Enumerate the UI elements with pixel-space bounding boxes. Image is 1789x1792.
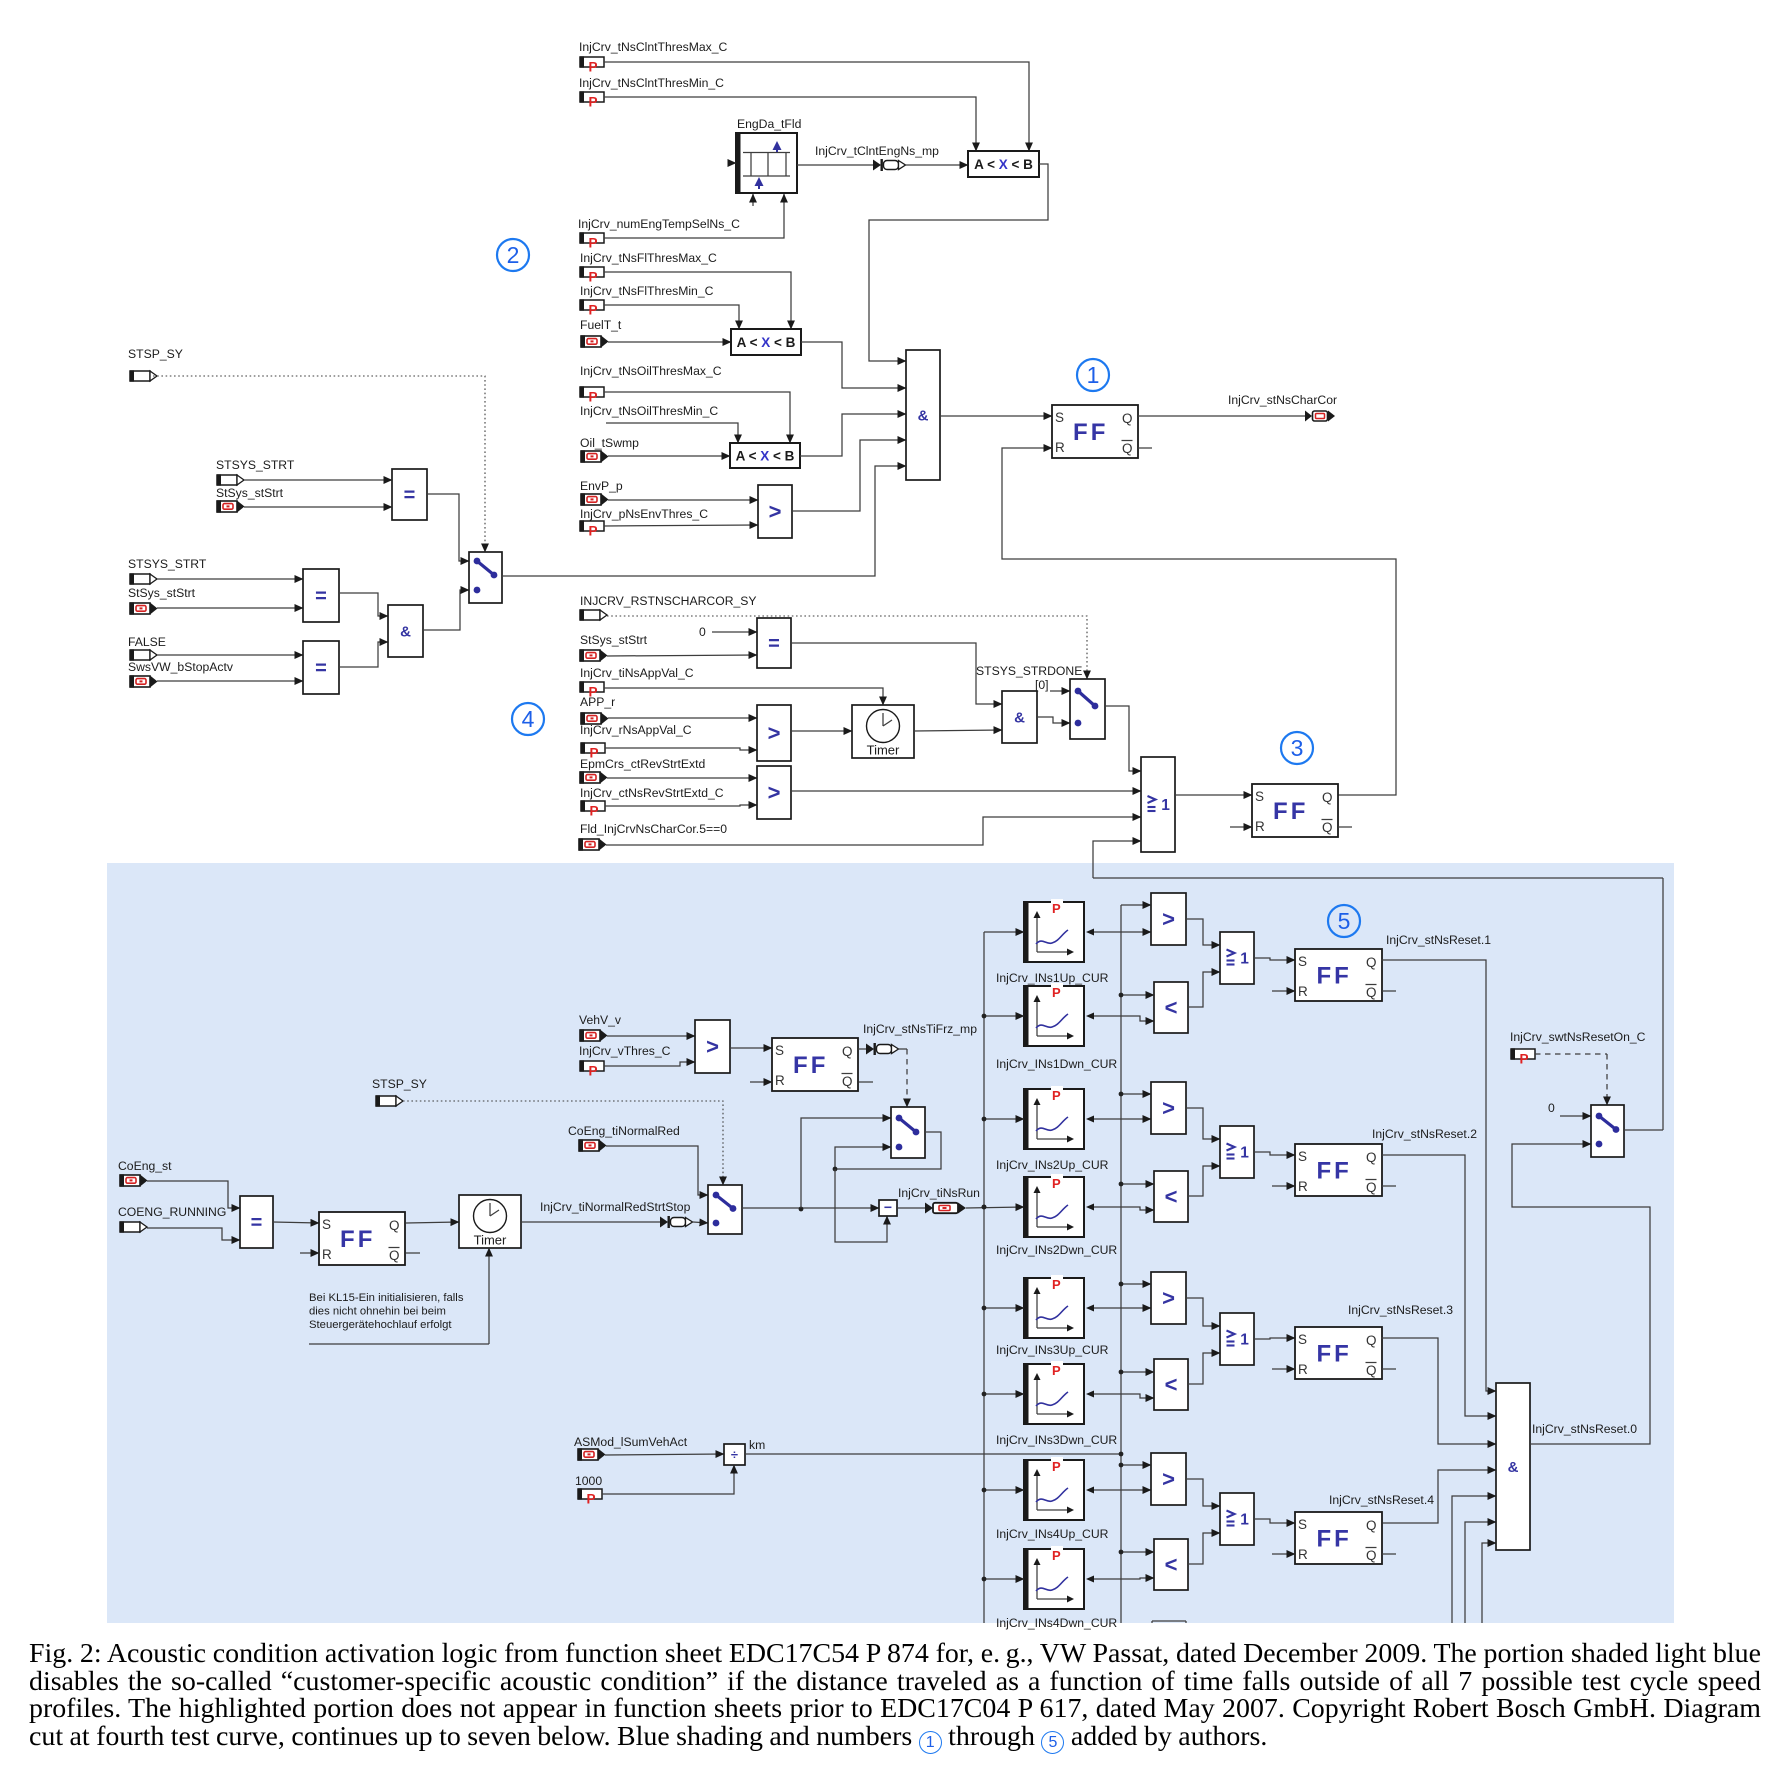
svg-text:Q: Q [389, 1248, 400, 1263]
wire tNsOilThresMin to oil comparator A input [606, 423, 738, 443]
wire OR to FF S row 3 [1254, 1338, 1295, 1339]
svg-text:&: & [400, 623, 411, 640]
switch (reset on select) [1591, 1105, 1624, 1157]
svg-text:=: = [251, 1212, 263, 1234]
svg-text:÷: ÷ [731, 1447, 738, 1462]
switch (STRDONE select) [1070, 679, 1105, 739]
svg-text:3: 3 [1291, 735, 1304, 761]
svg-text:FF: FF [1316, 1340, 1351, 1367]
output port InjCrv_stNsCharCor [1305, 411, 1312, 422]
wire equals output to AND [791, 643, 1002, 704]
wire AND output to FF1 S input [940, 415, 1052, 417]
svg-text:Oil_tSwmp: Oil_tSwmp [580, 436, 639, 450]
svg-text:StSys_stStrt: StSys_stStrt [216, 486, 284, 500]
curve block InjCrv_INs3Dwn_CUR [1024, 1364, 1084, 1424]
svg-text:STSYS_STRDONE: STSYS_STRDONE [976, 664, 1082, 678]
comparator < row 4 [1154, 1539, 1188, 1590]
FF5 R stub [300, 1252, 319, 1254]
svg-text:InjCrv_stNsReset.3: InjCrv_stNsReset.3 [1348, 1303, 1453, 1317]
flip-flop FF1 (acoustic condition latch) [1052, 405, 1138, 458]
svg-text:InjCrv_ctNsRevStrtExtd_C: InjCrv_ctNsRevStrtExtd_C [580, 786, 724, 800]
timer block (pedal) [852, 705, 914, 758]
minus block (time difference) [879, 1200, 897, 1216]
comparator A<X<B (oil) [730, 443, 800, 468]
flip-flop FF4 (speed freeze latch) [772, 1038, 858, 1091]
wire speed comparator to FF4 S [730, 1047, 772, 1049]
wire AND to switch input 2 [1037, 717, 1070, 723]
wire lower equals output to AND [339, 593, 388, 616]
svg-text:>: > [1162, 1286, 1175, 1311]
svg-text:P: P [589, 524, 598, 539]
circled number 5 [1328, 905, 1360, 937]
flip-flop FF3 (reset latch) [1252, 784, 1338, 837]
flip-flop FF InjCrv_stNsReset.4 [1295, 1512, 1382, 1564]
comparator A<X<B (fuel) [731, 329, 801, 355]
wire tNsFlThresMax to fuel comparator B input [604, 272, 791, 329]
wire OR to FF S row 2 [1254, 1152, 1295, 1155]
svg-text:Timer: Timer [867, 743, 900, 758]
svg-text:CoEng_st: CoEng_st [118, 1159, 172, 1173]
equals block (STSYS_STRT top) [392, 469, 427, 520]
dotted wire RSTNSCHARCOR to switch control [607, 616, 1087, 679]
switch (time freeze) [891, 1107, 925, 1158]
circled number 4 [512, 703, 544, 735]
wire tiNsRun to bus and CUR2Dwn input [966, 1207, 1024, 1208]
wire stNsReset.0 output loop to switch [1512, 1144, 1650, 1444]
wire start AND output to switch input 2 [423, 590, 469, 630]
svg-text:1: 1 [1161, 797, 1170, 814]
svg-text:1: 1 [1240, 951, 1249, 968]
curve block InjCrv_INs4Up_CUR [1024, 1460, 1084, 1520]
svg-text:InjCrv_tiNormalRedStrtStop: InjCrv_tiNormalRedStrtStop [540, 1200, 691, 1214]
wire InjCrv_INs3Up_CUR output to > comparator [1086, 1305, 1094, 1312]
svg-text:P: P [587, 1492, 596, 1507]
svg-text:FF: FF [1273, 798, 1308, 825]
svg-text:Q: Q [1366, 1363, 1377, 1378]
wire > output to OR row 1 [1186, 919, 1220, 945]
flip-flop FF InjCrv_stNsReset.2 [1295, 1144, 1382, 1196]
svg-text:Q: Q [1366, 1150, 1377, 1165]
svg-text:InjCrv_INs4Dwn_CUR: InjCrv_INs4Dwn_CUR [996, 1616, 1117, 1630]
wire InjCrv_INs4Dwn_CUR output to < comparator [1086, 1576, 1094, 1583]
svg-text:Timer: Timer [474, 1233, 507, 1248]
wire FF Reset.2 Q to AND collector [1382, 1155, 1496, 1416]
wire < output to OR row 1 [1188, 972, 1220, 1007]
svg-text:Q: Q [389, 1218, 400, 1233]
equals block (FALSE compare) [303, 641, 339, 694]
comparator > row 2 [1151, 1082, 1186, 1134]
svg-text:A < X < B: A < X < B [974, 157, 1033, 172]
wire StSys_stStrt upper to equals [244, 506, 392, 508]
svg-text:P: P [589, 60, 598, 75]
wire time bus to InjCrv_INs2Up_CUR input [984, 1118, 1024, 1120]
svg-text:P: P [589, 303, 598, 318]
flip-flop FF5 (engine running latch) [319, 1212, 405, 1265]
wire InjCrv_INs1Up_CUR output to > comparator [1086, 929, 1094, 936]
wire km bus to < row 3 [1121, 1371, 1154, 1373]
wire upper equals output to switch input 1 [427, 494, 469, 561]
svg-text:2: 2 [507, 242, 520, 268]
svg-text:[0]: [0] [1035, 678, 1049, 692]
svg-text:P: P [589, 270, 598, 285]
svg-text:Q: Q [1366, 1548, 1377, 1563]
wire km bus to < row 1 [1121, 994, 1154, 996]
FF row 1 R stub [1272, 990, 1295, 992]
wire InjCrv_INs4Up_CUR output to > comparator [1086, 1487, 1094, 1494]
OR gate (reset conditions) [1141, 757, 1175, 852]
wire 0 to equals [712, 631, 757, 633]
wire FF Reset.4 Q to AND collector [1383, 1470, 1496, 1523]
circled number 1 [1077, 359, 1109, 391]
svg-text:P: P [1052, 1459, 1061, 1474]
svg-text:P: P [590, 804, 599, 819]
wire time bus to InjCrv_INs1Dwn_CUR input [984, 1015, 1024, 1017]
svg-text:InjCrv_INs3Up_CUR: InjCrv_INs3Up_CUR [996, 1343, 1109, 1357]
svg-text:FF: FF [793, 1052, 828, 1079]
svg-text:Q: Q [1322, 820, 1333, 835]
curve block InjCrv_INs1Up_CUR [1024, 902, 1084, 962]
svg-text:InjCrv_INs4Up_CUR: InjCrv_INs4Up_CUR [996, 1527, 1109, 1541]
dashed wire stNsTiFrz to switch control [899, 1048, 907, 1050]
wire InjCrv_INs2Up_CUR output to > comparator [1086, 1116, 1094, 1123]
svg-text:P: P [1052, 901, 1061, 916]
dotted wire STSP_SY to switch control (blue) [403, 1101, 723, 1185]
wire CoEng_st to equals [147, 1181, 240, 1208]
wire tNsFlThresMin to fuel comparator A input [604, 305, 739, 329]
svg-text:Q: Q [1122, 441, 1133, 456]
svg-text:Steuergerätehochlauf erfolgt: Steuergerätehochlauf erfolgt [309, 1319, 452, 1331]
svg-text:P: P [1052, 985, 1061, 1000]
svg-text:InjCrv_vThres_C: InjCrv_vThres_C [579, 1044, 671, 1058]
wire pedal comparator to Timer [791, 730, 852, 732]
svg-text:R: R [1298, 1547, 1308, 1562]
svg-text:=: = [315, 658, 327, 680]
svg-text:S: S [1298, 1332, 1307, 1347]
svg-text:>: > [768, 780, 781, 805]
svg-text:COENG_RUNNING: COENG_RUNNING [118, 1205, 226, 1219]
svg-text:P: P [589, 95, 598, 110]
svg-text:InjCrv_stNsCharCor: InjCrv_stNsCharCor [1228, 393, 1337, 407]
svg-text:R: R [1298, 1362, 1308, 1377]
svg-text:km: km [749, 1438, 765, 1452]
wire FF5 Q to Timer [406, 1222, 459, 1223]
wire km bus to > row 3 [1121, 1283, 1151, 1285]
svg-text:−: − [884, 1199, 892, 1215]
FF row 2 Qbar stub [1382, 1185, 1396, 1187]
svg-text:P: P [589, 390, 598, 405]
svg-text:S: S [1298, 954, 1307, 969]
svg-text:1: 1 [1240, 1145, 1249, 1162]
wire loop to minus block bottom input [835, 1169, 887, 1242]
wire APP_r to > comparator [608, 717, 757, 719]
svg-text:Bei KL15-Ein initialisieren, f: Bei KL15-Ein initialisieren, falls [309, 1292, 464, 1304]
wire OR input 4 from feedback [1093, 841, 1141, 878]
wire time bus to InjCrv_INs1Up_CUR input [984, 931, 1024, 933]
svg-text:>: > [706, 1034, 719, 1059]
svg-text:EnvP_p: EnvP_p [580, 479, 623, 493]
circled number 2 [497, 239, 529, 271]
svg-text:FF: FF [1073, 419, 1108, 446]
svg-text:InjCrv_tClntEngNs_mp: InjCrv_tClntEngNs_mp [815, 144, 939, 158]
svg-text:S: S [1298, 1517, 1307, 1532]
svg-text:P: P [1052, 1176, 1061, 1191]
svg-text:1: 1 [1240, 1512, 1249, 1529]
svg-text:FF: FF [1316, 1525, 1351, 1552]
FF5 Qbar stub [406, 1252, 420, 1254]
FF row 3 R stub [1272, 1368, 1295, 1370]
comparator A<X<B (coolant) [968, 151, 1039, 177]
switch (normal reduction select) [708, 1185, 742, 1234]
svg-text:FuelT_t: FuelT_t [580, 318, 622, 332]
wire OR to FF S row 1 [1254, 958, 1295, 960]
equals block (engine running) [240, 1196, 273, 1248]
svg-text:INJCRV_RSTNSCHARCOR_SY: INJCRV_RSTNSCHARCOR_SY [580, 594, 757, 608]
svg-text:P: P [589, 1064, 598, 1079]
stub input arrow into EngDa_tFld left [728, 162, 736, 164]
svg-text:S: S [775, 1043, 784, 1058]
km bus (vertical, feeds comparators) [1120, 905, 1122, 1623]
curve block InjCrv_INs4Dwn_CUR [1024, 1549, 1084, 1609]
wire EnvP_p to > comparator [608, 499, 758, 501]
svg-text:<: < [1165, 1552, 1178, 1577]
svg-text:R: R [1298, 1179, 1308, 1194]
svg-text:InjCrv_INs1Dwn_CUR: InjCrv_INs1Dwn_CUR [996, 1057, 1117, 1071]
svg-text:EpmCrs_ctRevStrtExtd: EpmCrs_ctRevStrtExtd [580, 757, 705, 771]
svg-text:R: R [322, 1247, 332, 1262]
svg-text:Q: Q [1366, 955, 1377, 970]
wire VehV_v to > comparator [607, 1035, 695, 1037]
wire InjCrv_INs1Dwn_CUR output to < comparator [1086, 1013, 1094, 1020]
wire oil comparator output to AND input 3 [800, 414, 906, 456]
wire FALSE equals output to AND [339, 642, 388, 667]
wire EpmCrs_ctRevStrtExtd to > comparator [607, 777, 757, 779]
svg-text:STSP_SY: STSP_SY [128, 347, 183, 361]
wire time bus to InjCrv_INs3Dwn_CUR input [984, 1393, 1024, 1395]
wire km bus to < row 4 [1121, 1551, 1154, 1553]
flip-flop FF InjCrv_stNsReset.1 [1295, 949, 1382, 1001]
FF1 Qbar stub [1138, 447, 1152, 449]
svg-text:InjCrv_tNsClntThresMin_C: InjCrv_tNsClntThresMin_C [579, 76, 724, 90]
svg-text:>: > [1162, 1467, 1175, 1492]
annotation line to Timer bottom input [309, 1343, 489, 1345]
svg-text:P: P [1052, 1363, 1061, 1378]
svg-text:InjCrv_tNsFlThresMax_C: InjCrv_tNsFlThresMax_C [580, 251, 717, 265]
svg-text:InjCrv_pNsEnvThres_C: InjCrv_pNsEnvThres_C [580, 507, 708, 521]
comparator > row 1 [1151, 893, 1186, 945]
wire 1000 to divider bottom [602, 1465, 734, 1494]
comparator < row 1 [1154, 982, 1188, 1033]
wire > output to OR row 4 [1186, 1479, 1220, 1506]
wire 0 to reset switch [1560, 1115, 1591, 1117]
curve block InjCrv_INs2Up_CUR [1024, 1089, 1084, 1149]
svg-text:FF: FF [340, 1226, 375, 1253]
wire < output to OR row 3 [1188, 1353, 1220, 1384]
svg-text:A < X < B: A < X < B [736, 449, 795, 464]
svg-text:<: < [1165, 995, 1178, 1020]
svg-text:VehV_v: VehV_v [579, 1013, 622, 1027]
svg-text:InjCrv_stNsReset.2: InjCrv_stNsReset.2 [1372, 1127, 1477, 1141]
wire vThres to > comparator [604, 1062, 695, 1066]
wire FF1 Q to output [1138, 415, 1305, 417]
svg-text:InjCrv_stNsReset.1: InjCrv_stNsReset.1 [1386, 933, 1491, 947]
svg-text:4: 4 [522, 706, 535, 732]
wire row6 (cut) to AND collector [1465, 1522, 1496, 1623]
svg-text:&: & [1508, 1459, 1519, 1476]
svg-text:InjCrv_tiNsRun: InjCrv_tiNsRun [898, 1186, 980, 1200]
svg-text:APP_r: APP_r [580, 695, 615, 709]
wire STSYS_STRT upper to equals [244, 479, 392, 481]
wire > output to OR row 3 [1186, 1298, 1220, 1326]
dashed wire swtNsResetOn to switch control [1535, 1053, 1607, 1055]
svg-text:Q: Q [1322, 790, 1333, 805]
AND gate (start condition) [388, 605, 423, 657]
wire InjCrv_INs3Dwn_CUR output to < comparator [1086, 1391, 1094, 1398]
svg-text:InjCrv_stNsReset.4: InjCrv_stNsReset.4 [1329, 1493, 1434, 1507]
svg-text:R: R [1055, 440, 1065, 455]
svg-text:Q: Q [1122, 411, 1133, 426]
svg-text:EngDa_tFld: EngDa_tFld [737, 117, 801, 131]
svg-text:&: & [918, 407, 929, 424]
FF3 Qbar stub [1338, 826, 1352, 828]
wire > output to OR row 2 [1186, 1108, 1220, 1139]
svg-text:P: P [1052, 1088, 1061, 1103]
svg-text:STSYS_STRT: STSYS_STRT [216, 458, 295, 472]
wire StSys_stStrt lower to equals [157, 607, 303, 609]
OR gate row 1 [1220, 932, 1254, 984]
wire < output to OR row 4 [1188, 1533, 1220, 1564]
wire measurement point to A<X<B X input [906, 164, 968, 166]
wire km bus to > row 2 [1121, 1093, 1151, 1095]
wire rNsAppVal to > comparator [605, 748, 757, 750]
wire FF3 Q feedback to FF1 R [1002, 448, 1396, 795]
wire switch output to junction and minus block [742, 1207, 879, 1209]
wire km bus to > row 4 [1121, 1464, 1151, 1466]
wire STSYS_STRT lower to equals [157, 578, 303, 580]
switch (start/stop select) [469, 552, 502, 603]
AND gate (acoustic conditions) [906, 350, 940, 480]
svg-text:Q: Q [1366, 1180, 1377, 1195]
FF4 R stub [750, 1081, 772, 1083]
OR gate row 3 [1220, 1313, 1254, 1365]
wire tNsClntThresMin to A<X<B comparator A input [604, 97, 976, 151]
svg-text:S: S [322, 1217, 331, 1232]
svg-text:0: 0 [699, 625, 706, 639]
svg-text:FF: FF [1316, 962, 1351, 989]
svg-text:Q: Q [1366, 1518, 1377, 1533]
svg-text:P: P [1052, 1548, 1061, 1563]
svg-text:R: R [1298, 984, 1308, 999]
svg-text:P: P [1052, 1277, 1061, 1292]
svg-text:InjCrv_numEngTempSelNs_C: InjCrv_numEngTempSelNs_C [578, 217, 740, 231]
wire pressure comparator output to AND input 4 [792, 440, 906, 511]
svg-text:<: < [1165, 1372, 1178, 1397]
svg-text:=: = [404, 485, 416, 507]
comparator > (vehicle speed) [695, 1020, 730, 1073]
svg-text:R: R [775, 1073, 785, 1088]
FF3 R stub [1230, 826, 1252, 828]
wire row7 (cut) to AND collector [1482, 1543, 1496, 1623]
svg-text:&: & [1014, 709, 1025, 726]
svg-text:InjCrv_INs1Up_CUR: InjCrv_INs1Up_CUR [996, 971, 1109, 985]
wire FALSE to equals [157, 654, 303, 656]
svg-text:0: 0 [1548, 1101, 1555, 1115]
blue shaded region (customer-specific acoustic condition logic) [107, 863, 1674, 1623]
wire time bus to InjCrv_INs4Up_CUR input [984, 1489, 1024, 1491]
svg-text:>: > [1162, 1096, 1175, 1121]
svg-text:<: < [1165, 1184, 1178, 1209]
svg-text:FALSE: FALSE [128, 635, 166, 649]
svg-text:InjCrv_stNsReset.0: InjCrv_stNsReset.0 [1532, 1422, 1637, 1436]
svg-text:S: S [1055, 410, 1064, 425]
wire FF Reset.3 Q to AND collector [1381, 1338, 1496, 1444]
svg-text:P: P [589, 236, 598, 251]
svg-text:InjCrv_INs3Dwn_CUR: InjCrv_INs3Dwn_CUR [996, 1433, 1117, 1447]
svg-text:1: 1 [1087, 362, 1100, 388]
svg-text:StSys_stStrt: StSys_stStrt [580, 633, 648, 647]
divider block (km conversion) [724, 1444, 745, 1465]
timer block (normal reduction) [459, 1195, 521, 1248]
wire OR to FF S row 4 [1254, 1519, 1295, 1523]
wire time bus to InjCrv_INs4Dwn_CUR input [984, 1578, 1024, 1580]
svg-text:InjCrv_tiNsAppVal_C: InjCrv_tiNsAppVal_C [580, 666, 694, 680]
wire Timer output to AND [914, 730, 1002, 731]
comparator > (crank revolutions) [757, 766, 791, 819]
svg-text:ASMod_lSumVehAct: ASMod_lSumVehAct [574, 1435, 688, 1449]
wire SwsVW_bStopActv to equals [157, 680, 303, 682]
FF row 1 Qbar stub [1382, 990, 1396, 992]
curve block InjCrv_INs3Up_CUR [1024, 1278, 1084, 1338]
svg-text:InjCrv_tNsOilThresMin_C: InjCrv_tNsOilThresMin_C [580, 404, 718, 418]
AND gate (stNsReset.0 collector) [1496, 1383, 1530, 1550]
stub input arrow into EngDa_tFld bottom left [752, 194, 754, 206]
wire km bus to < row 2 [1121, 1183, 1154, 1185]
wire FF Reset.1 Q to AND collector [1381, 960, 1496, 1391]
wire FF4 Q to measurement point [858, 1048, 866, 1050]
svg-text:STSP_SY: STSP_SY [372, 1077, 427, 1091]
wire numEngTempSelNs to EngDa_tFld bottom input [604, 194, 784, 238]
svg-text:1000: 1000 [575, 1474, 602, 1488]
wire coolant comparator output to AND input 1 [869, 164, 1048, 361]
feedback wire from blue region to OR [1093, 877, 1663, 879]
svg-text:FF: FF [1316, 1157, 1351, 1184]
equals block (stStrt==0) [757, 618, 791, 668]
equals block (STSYS_STRT lower) [303, 569, 339, 622]
wire Fld to OR input 3 [606, 817, 1141, 845]
svg-text:InjCrv_swtNsResetOn_C: InjCrv_swtNsResetOn_C [1510, 1030, 1646, 1044]
comparator > (accelerator pedal) [757, 705, 791, 761]
wire junction up to freeze switch input 1 [801, 1118, 891, 1208]
wire [0] to switch input 1 [1050, 690, 1070, 692]
comparator < row 3 [1154, 1359, 1188, 1410]
svg-text:R: R [1255, 819, 1265, 834]
wire fuel comparator output to AND input 2 [801, 342, 906, 388]
circled number 3 [1281, 732, 1313, 764]
FF row 3 Qbar stub [1382, 1368, 1396, 1370]
wire tNsOilThresMax to oil comparator B input [604, 392, 790, 443]
wire tiNsAppVal to Timer top [604, 688, 883, 705]
svg-text:=: = [768, 633, 780, 655]
wire CoEng_tiNormalRed to switch input 1 [606, 1146, 708, 1195]
wire Timer2 output to measurement point [521, 1221, 660, 1223]
wire reset switch output to feedback [1624, 1129, 1663, 1131]
svg-text:STSYS_STRT: STSYS_STRT [128, 557, 207, 571]
svg-text:S: S [1298, 1149, 1307, 1164]
wire < output to OR row 2 [1188, 1166, 1220, 1196]
svg-text:P: P [1520, 1052, 1529, 1067]
OR gate row 2 [1220, 1126, 1254, 1178]
svg-text:Fld_InjCrvNsCharCor.5==0: Fld_InjCrvNsCharCor.5==0 [580, 822, 727, 836]
FF row 4 R stub [1272, 1553, 1295, 1555]
